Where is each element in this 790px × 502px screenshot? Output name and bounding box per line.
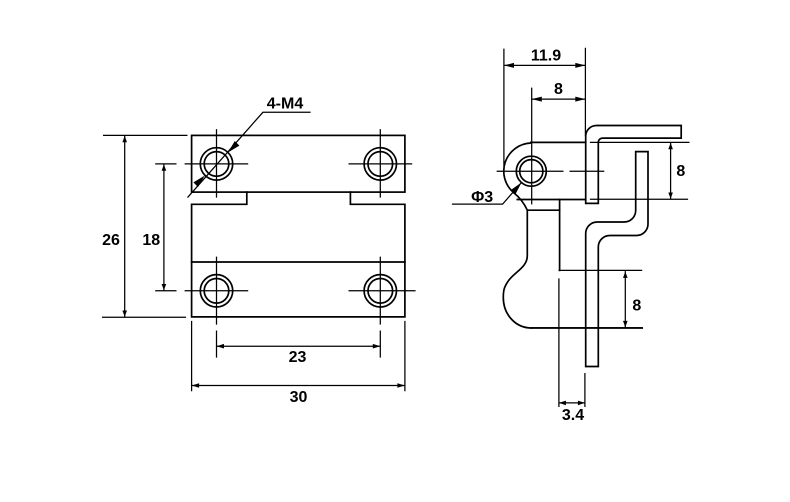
hole bottom-right outer [364,275,396,307]
phi3 leader arrow [511,183,522,195]
dim 30 line [192,385,405,387]
centerlines hole bottom-left [185,257,249,325]
dim 26 arrows [122,136,127,142]
dim 11.9 extension lines [504,48,586,166]
pin hole horizontal centerline [497,170,605,172]
knuckle top tangent edge [531,141,586,143]
dim 18 arrows [162,164,167,170]
dim 8 lower arrows [623,272,628,278]
dim 8 lower extension lines [532,270,643,327]
centerlines hole top-left [185,129,249,198]
hole top-left outer [200,148,232,180]
top plate outline [192,135,405,192]
dim 30 arrows [192,383,200,388]
dim 30 extension lines [192,321,405,391]
knuckle arc [504,143,531,193]
dim 3.4 arrows [559,401,566,406]
svg-text:8: 8 [632,298,641,315]
dim 18 extension lines [155,164,176,291]
dim 8 right line [670,142,672,199]
svg-text:3.4: 3.4 [562,407,584,424]
neck curve and left edge [503,193,531,329]
hole top-right inner [368,152,393,177]
hole top-left inner [204,152,229,177]
lower band top edge [192,261,405,263]
centerlines hole top-right [349,129,413,198]
top arm outline with bend [586,126,682,204]
dim 23 line [217,345,381,347]
dim 11.9 line [504,64,586,66]
dim 3.4 extension lines [559,278,585,407]
dim 8 top line [532,98,586,100]
hole top-right outer [364,148,396,180]
dim 3.4 line [559,402,585,404]
svg-text:Φ3: Φ3 [471,189,493,206]
dim 8 right extension lines [590,142,690,199]
svg-text:18: 18 [142,232,160,249]
pin hole outer [516,156,546,186]
svg-text:11.9: 11.9 [531,48,561,65]
dim 26 line [124,135,126,317]
4-M4 leader line [188,112,311,197]
dim 8 top arrows [532,97,542,102]
4-M4 leader arrow lower [193,176,205,188]
hole bottom-right inner [368,279,393,304]
dim 11.9 arrows [504,63,514,68]
dim 8 lower line [624,271,626,328]
dim 23 extension lines [217,331,381,358]
hole bottom-left inner [204,279,229,304]
part bottom edge [532,327,643,329]
leaf top edge [517,199,585,201]
phi3 leader line [452,183,522,205]
dim 18 line [163,164,165,291]
4-M4 leader arrow upper [228,141,240,153]
leaf right face [559,200,561,271]
svg-text:8: 8 [554,81,563,98]
right leaf upper bar and S-bend outer [586,152,648,367]
dim 8 right arrows [668,143,673,149]
pin hole inner [520,160,543,183]
hole bottom-left outer [200,275,232,307]
svg-text:30: 30 [290,389,308,406]
svg-text:8: 8 [676,163,685,180]
pin hole vertical centerline [531,88,533,205]
leaf band bottom edge [527,209,559,211]
dim 23 arrows [217,344,225,349]
lower leaf outline [192,192,405,317]
dim 26 extension lines [102,135,188,317]
svg-text:26: 26 [102,232,120,249]
centerlines hole bottom-right [349,257,416,325]
svg-text:23: 23 [289,349,307,366]
svg-text:4-M4: 4-M4 [267,96,304,113]
